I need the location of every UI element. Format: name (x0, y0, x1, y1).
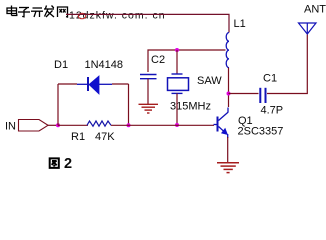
figure caption 图 2 (50, 158, 59, 168)
svg-text:R1: R1 (71, 131, 85, 143)
wire diode row left (58, 83, 77, 85)
wire bus R1 to Q1 base (111, 124, 214, 126)
wire emitter to ground (227, 137, 229, 163)
svg-text:D1: D1 (54, 59, 68, 71)
node junction SAW top (175, 48, 179, 52)
svg-text:IN: IN (5, 121, 16, 133)
wire junction to C1 (229, 93, 259, 95)
SAW resonator 315MHz (168, 74, 189, 93)
port IN (5, 120, 48, 133)
capacitor C1 4.7P (260, 88, 265, 103)
svg-text:ANT: ANT (304, 4, 326, 16)
svg-text:4.7P: 4.7P (261, 105, 284, 117)
svg-text:L1: L1 (234, 18, 246, 30)
wire C1 to antenna (267, 35, 307, 94)
diode D1 1N4148 (77, 76, 112, 94)
wire diode loop right vertical (128, 84, 130, 125)
node junction SAW bottom (175, 123, 179, 127)
wire SAW top stem (176, 50, 178, 74)
svg-text:C2: C2 (151, 54, 165, 66)
inductor L1 (226, 33, 229, 68)
wire SAW bottom to bus (176, 93, 178, 125)
svg-text:1N4148: 1N4148 (85, 59, 124, 71)
wire L1 bottom to collector junction (228, 68, 230, 107)
ground below Q1 (217, 163, 239, 173)
svg-text:12dzkfw. com. cn: 12dzkfw. com. cn (69, 10, 166, 22)
antenna ANT (299, 23, 317, 34)
node junction L1/C1/collector (227, 92, 231, 96)
ground below C2 (139, 104, 159, 113)
wire mid rail C2 to L1 tap (148, 50, 226, 72)
svg-text:315MHz: 315MHz (170, 101, 211, 113)
resistor R1 47K (87, 121, 111, 126)
wire IN to node A (48, 124, 58, 126)
wire bus node A to R1 (58, 124, 88, 126)
node B junction (127, 123, 131, 127)
svg-text:C1: C1 (263, 73, 277, 85)
wire top rail (merges with url underline) (66, 14, 229, 32)
wire C2 bottom to ground (147, 79, 149, 104)
watermark chinese text 电子开发网 (7, 6, 68, 18)
svg-text:47K: 47K (95, 131, 115, 143)
svg-text:SAW: SAW (197, 75, 222, 87)
capacitor C2 (140, 75, 157, 79)
transistor Q1 2SC3357 (214, 108, 229, 139)
node A junction (56, 123, 60, 127)
svg-text:2SC3357: 2SC3357 (238, 126, 284, 138)
watermark url text www.dzkfw.com.cn (69, 10, 166, 22)
wire diode row right (112, 83, 129, 85)
wire diode loop left vertical (57, 84, 59, 125)
svg-text:2: 2 (64, 156, 72, 172)
